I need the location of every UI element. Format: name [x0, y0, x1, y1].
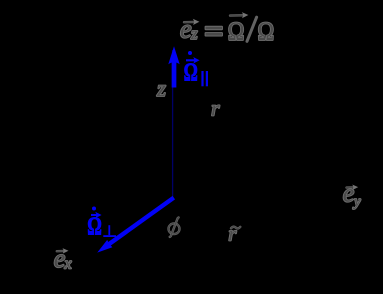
label r-tilde: [228, 222, 240, 246]
svg-text:Ω: Ω: [228, 17, 245, 46]
vector Omega-parallel (blue up arrow on z-axis): [168, 46, 179, 87]
vector Omega-perp (blue arrow from origin to lower left): [97, 198, 174, 253]
label e_x: [54, 244, 72, 273]
label Omega-dot-perp (blue): [87, 207, 116, 241]
svg-text:Ω: Ω: [184, 59, 198, 86]
svg-text:e: e: [180, 14, 192, 43]
svg-text:Ω: Ω: [258, 17, 275, 46]
svg-text:r: r: [211, 96, 220, 121]
svg-text:e: e: [343, 178, 355, 207]
svg-text:z: z: [190, 24, 198, 43]
label phi: [169, 218, 180, 237]
svg-text:r: r: [228, 222, 237, 246]
svg-text:z: z: [156, 76, 166, 101]
svg-text:Ω: Ω: [87, 213, 102, 240]
svg-text:x: x: [64, 255, 72, 272]
label e_z = Omega/Omega (top): [180, 12, 274, 46]
label Omega-dot-parallel (blue): [184, 51, 207, 86]
label e_y: [343, 178, 361, 210]
z-axis: [172, 50, 174, 199]
svg-text:y: y: [352, 194, 361, 210]
